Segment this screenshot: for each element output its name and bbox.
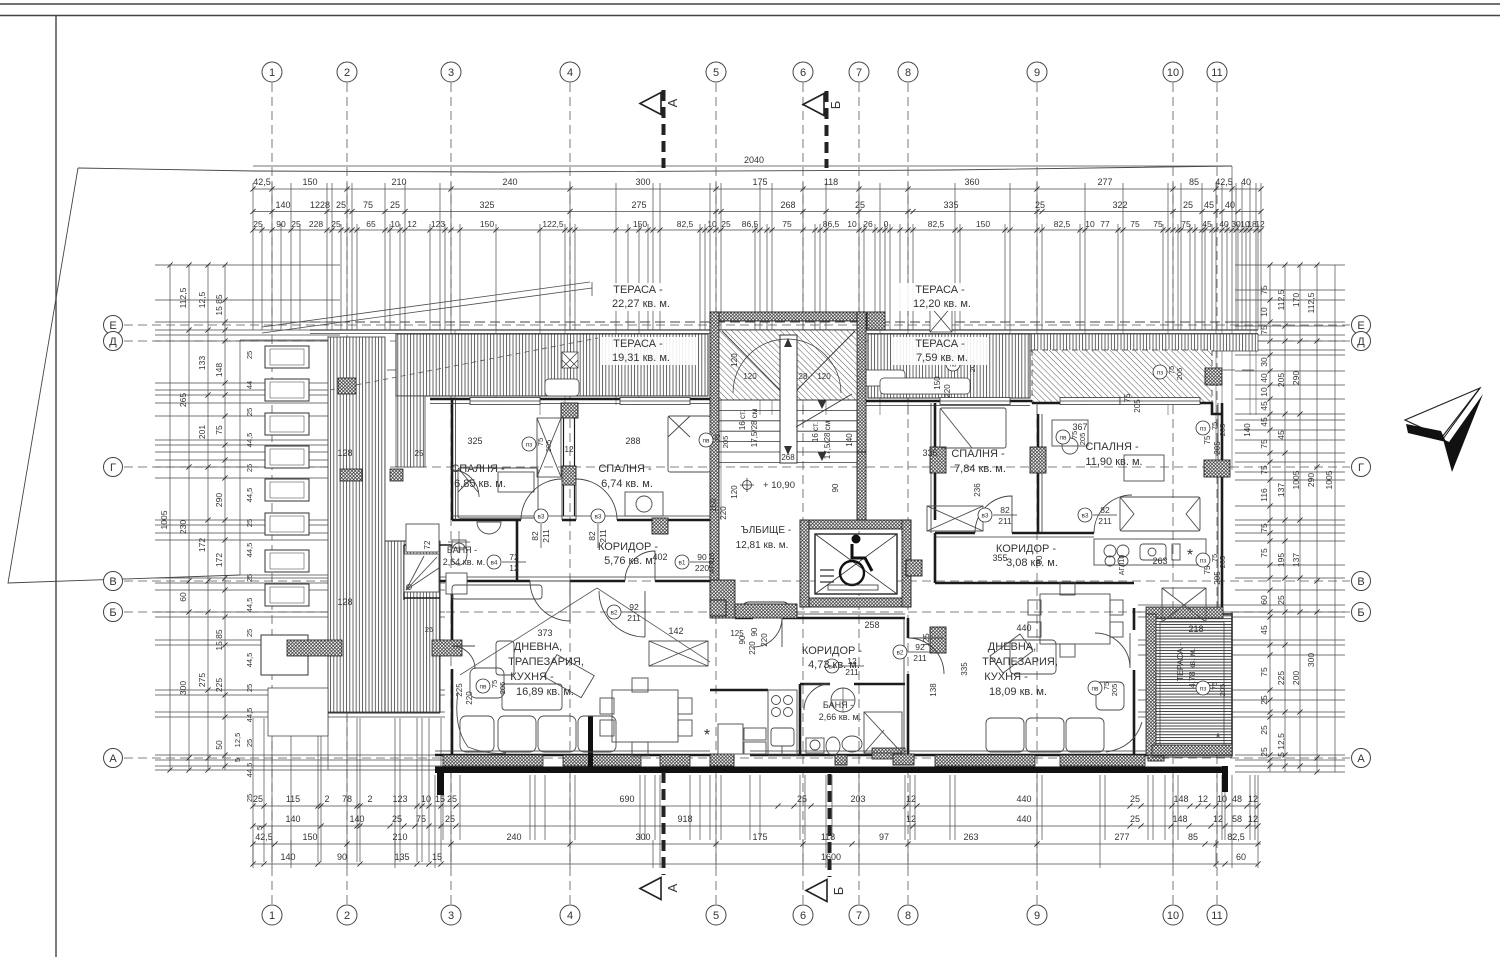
svg-text:75: 75 [1181,219,1191,229]
ramp diagonal lines [262,282,592,333]
svg-text:пз: пз [1157,370,1164,377]
svg-text:25: 25 [1183,200,1193,210]
section mark A bottom [640,772,664,900]
svg-text:225: 225 [455,683,464,697]
svg-text:150: 150 [480,219,494,229]
svg-text:2,64 кв. м.: 2,64 кв. м. [443,557,485,567]
svg-text:5 12,5: 5 12,5 [1276,733,1286,757]
svg-text:60: 60 [1259,595,1269,605]
svg-text:75: 75 [1130,219,1140,229]
svg-text:12: 12 [509,563,519,573]
svg-text:Д: Д [1357,336,1365,348]
svg-text:148: 148 [1172,814,1187,824]
svg-text:175: 175 [752,177,767,187]
svg-text:75: 75 [1259,465,1269,475]
svg-text:1: 1 [269,910,275,922]
svg-text:75: 75 [363,200,373,210]
svg-text:300: 300 [1306,653,1316,667]
svg-text:в2: в2 [896,650,903,657]
svg-text:12: 12 [906,794,916,804]
svg-text:4,78 кв. м.: 4,78 кв. м. [1187,648,1197,688]
svg-text:12: 12 [906,814,916,824]
svg-text:75: 75 [1259,439,1269,449]
svg-text:75: 75 [1203,435,1212,444]
svg-text:4: 4 [567,67,573,79]
svg-text:9: 9 [1034,910,1040,922]
svg-text:277: 277 [1097,177,1112,187]
svg-text:15: 15 [435,794,445,804]
svg-text:Б: Б [109,607,116,619]
svg-text:9: 9 [1034,67,1040,79]
svg-text:ТЕРАСА -: ТЕРАСА - [1175,643,1185,681]
small crosshatch blocks near left strip [340,469,362,481]
svg-text:12: 12 [1198,794,1208,804]
door swing arcs [452,470,1132,710]
svg-text:БАНЯ -: БАНЯ - [447,545,477,555]
svg-text:195: 195 [1276,553,1286,567]
room labels [602,283,698,311]
svg-text:82,5: 82,5 [1054,219,1071,229]
stair flight diagonal + arrows [722,331,855,427]
svg-text:пз: пз [526,442,533,449]
svg-text:112,5: 112,5 [1306,292,1316,313]
svg-text:10: 10 [707,219,717,229]
svg-text:25: 25 [331,219,341,229]
svg-text:25: 25 [245,464,254,472]
svg-text:290: 290 [214,493,224,507]
columns [561,312,1230,766]
svg-text:918: 918 [677,814,692,824]
svg-text:75: 75 [214,425,224,435]
svg-text:16 ст.: 16 ст. [811,422,820,442]
svg-text:28: 28 [799,372,808,381]
svg-text:172: 172 [214,553,224,567]
svg-text:225: 225 [214,678,224,692]
svg-text:82,5: 82,5 [928,219,945,229]
svg-text:ТРАПЕЗАРИЯ,: ТРАПЕЗАРИЯ, [508,656,584,668]
svg-text:42,5: 42,5 [1215,177,1233,187]
svg-text:БАНЯ -: БАНЯ - [823,700,853,710]
svg-text:пз: пз [1200,426,1207,433]
svg-text:135: 135 [394,852,409,862]
svg-text:ТЕРАСА -: ТЕРАСА - [915,338,965,350]
svg-text:360: 360 [964,177,979,187]
svg-text:*: * [1215,730,1220,745]
svg-text:19,31 кв. м.: 19,31 кв. м. [612,352,670,364]
svg-text:50: 50 [214,740,224,750]
svg-text:25: 25 [291,219,301,229]
svg-text:25: 25 [390,200,400,210]
svg-text:205: 205 [1213,441,1222,455]
stair center rail [780,335,797,463]
svg-text:218: 218 [1188,624,1203,634]
svg-text:275: 275 [197,673,207,687]
svg-text:60: 60 [1236,852,1246,862]
svg-text:150: 150 [709,498,718,512]
terrain boundary [78,166,1232,172]
furniture [404,408,1206,756]
svg-text:78: 78 [342,794,352,804]
svg-text:КУХНЯ -: КУХНЯ - [510,671,554,683]
svg-text:пв: пв [703,438,711,445]
svg-text:15: 15 [432,852,442,862]
svg-text:12,81 кв. м.: 12,81 кв. м. [736,540,789,551]
svg-text:ТЕРАСА -: ТЕРАСА - [915,284,965,296]
svg-text:12,5: 12,5 [233,733,242,748]
north arrow [1405,388,1483,472]
svg-text:в3: в3 [1081,513,1088,520]
svg-text:12: 12 [1255,219,1265,229]
svg-text:90: 90 [750,627,759,636]
svg-text:25: 25 [1035,200,1045,210]
svg-text:А: А [665,883,680,892]
svg-text:335: 335 [943,200,958,210]
svg-text:ТЕРАСА -: ТЕРАСА - [613,284,663,296]
svg-text:17,5/28 см: 17,5/28 см [750,409,759,447]
svg-text:пв: пв [480,684,488,691]
svg-text:2: 2 [367,794,372,804]
svg-text:ДНЕВНА,: ДНЕВНА, [988,641,1036,653]
door tag circles [540,524,542,548]
svg-text:75: 75 [1259,548,1269,558]
svg-text:325: 325 [467,436,482,446]
step outline right of terrace [1152,612,1232,757]
svg-text:45: 45 [1204,200,1214,210]
small deco rails top terraces [545,306,970,396]
svg-text:325: 325 [479,200,494,210]
svg-text:82,5: 82,5 [677,219,694,229]
svg-text:142: 142 [668,626,683,636]
svg-text:300: 300 [178,681,188,695]
svg-text:120: 120 [730,353,739,367]
svg-text:15,85: 15,85 [214,629,224,651]
svg-text:72: 72 [423,540,432,549]
svg-text:3: 3 [448,910,454,922]
svg-text:150: 150 [302,832,317,842]
svg-text:263: 263 [963,832,978,842]
svg-text:12: 12 [407,219,417,229]
svg-text:СПАЛНЯ -: СПАЛНЯ - [1085,441,1139,453]
svg-text:Б: Б [831,887,846,896]
svg-text:203: 203 [850,794,865,804]
svg-text:*: * [704,727,710,744]
svg-text:44,5: 44,5 [245,598,254,613]
svg-text:112,5: 112,5 [1276,289,1286,310]
svg-text:10: 10 [1167,67,1179,79]
svg-text:ТЕРАСА -: ТЕРАСА - [613,338,663,350]
svg-text:133: 133 [197,356,207,370]
svg-text:45: 45 [1202,219,1212,229]
svg-text:0: 0 [884,219,889,229]
svg-text:30: 30 [1259,357,1269,367]
svg-text:290: 290 [1306,473,1316,487]
svg-text:2: 2 [324,794,329,804]
svg-text:пв: пв [1092,686,1100,693]
svg-text:258: 258 [864,620,879,630]
svg-text:75: 75 [782,219,792,229]
svg-text:72: 72 [509,552,519,562]
svg-text:42,5: 42,5 [255,832,273,842]
thin hatch strip continuing right [1030,334,1258,351]
svg-text:25: 25 [336,200,346,210]
svg-text:140: 140 [845,433,854,447]
svg-text:пз: пз [1200,686,1207,693]
svg-text:А: А [1357,753,1365,765]
svg-text:25: 25 [1130,814,1140,824]
level mark [743,481,752,490]
svg-text:ТРАПЕЗАРИЯ,: ТРАПЕЗАРИЯ, [982,656,1058,668]
svg-text:277: 277 [1114,832,1129,842]
svg-text:СПАЛНЯ -: СПАЛНЯ - [451,463,505,475]
left terrace strip vertical hatch [328,337,385,712]
svg-text:25: 25 [1259,725,1269,735]
svg-text:335: 335 [960,662,969,676]
svg-text:4,73 кв. м.: 4,73 кв. м. [808,659,860,671]
svg-text:44,5: 44,5 [245,488,254,503]
svg-text:22,27 кв. м.: 22,27 кв. м. [612,298,670,310]
svg-text:265: 265 [178,393,188,407]
svg-text:205: 205 [544,440,553,453]
svg-text:16,89 кв. м.: 16,89 кв. м. [516,686,574,698]
svg-text:220: 220 [695,563,709,573]
svg-text:148: 148 [1173,794,1188,804]
svg-text:2040: 2040 [744,155,764,165]
svg-text:42,5: 42,5 [253,177,271,187]
svg-text:115: 115 [286,794,300,804]
top terrace right hatch [868,334,1030,398]
svg-text:18,09 кв. м.: 18,09 кв. м. [989,686,1047,698]
svg-text:205: 205 [721,436,730,449]
svg-text:92: 92 [915,642,925,652]
svg-text:КОРИДОР -: КОРИДОР - [996,543,1056,555]
AP.9 tag [742,602,790,616]
svg-text:8: 8 [905,910,911,922]
svg-text:172: 172 [197,538,207,552]
svg-text:5,76 кв. м.: 5,76 кв. м. [604,555,656,567]
svg-text:Б: Б [828,101,843,110]
svg-text:86,5: 86,5 [823,219,840,229]
windows in top wall [470,398,1200,405]
svg-text:25: 25 [245,739,254,747]
svg-text:7,59 кв. м.: 7,59 кв. м. [916,352,968,364]
svg-text:КОРИДОР -: КОРИДОР - [802,645,862,657]
svg-text:137: 137 [1291,553,1301,567]
right lower terrace hatch [1152,614,1232,755]
svg-text:5: 5 [255,826,264,830]
svg-text:10: 10 [847,219,857,229]
svg-text:205: 205 [498,682,507,695]
svg-text:205: 205 [1133,399,1142,413]
svg-text:СПАЛНЯ -: СПАЛНЯ - [951,448,1005,460]
svg-text:25: 25 [797,794,807,804]
svg-text:10: 10 [1085,219,1095,229]
svg-text:в4: в4 [490,560,497,567]
svg-text:82: 82 [1100,505,1110,515]
svg-text:367: 367 [1072,422,1087,432]
svg-text:211: 211 [913,653,927,663]
svg-text:140: 140 [275,200,290,210]
svg-text:12: 12 [565,445,574,454]
svg-text:205: 205 [1218,684,1227,697]
svg-text:7,84 кв. м.: 7,84 кв. м. [954,463,1006,475]
svg-text:288: 288 [625,436,640,446]
svg-text:6: 6 [800,67,806,79]
svg-text:118: 118 [824,177,838,187]
bottom parapet crosshatch segments [287,378,1145,766]
svg-text:220: 220 [719,506,728,520]
svg-text:228: 228 [309,219,323,229]
section mark B bottom [806,774,830,902]
svg-text:85: 85 [1188,832,1198,842]
svg-text:205: 205 [1218,424,1227,437]
section mark B top [803,91,827,168]
svg-text:10: 10 [421,794,431,804]
svg-text:120: 120 [817,372,831,381]
svg-text:25: 25 [253,219,263,229]
heavy section ground line [435,767,1228,774]
svg-text:Е: Е [109,320,116,332]
svg-text:в2: в2 [610,610,617,617]
svg-text:1005: 1005 [1324,470,1334,489]
svg-text:10: 10 [1259,387,1269,397]
elevator shaft [800,520,911,607]
svg-text:10: 10 [1217,794,1227,804]
svg-text:44,5: 44,5 [245,653,254,668]
svg-text:12: 12 [1248,814,1258,824]
svg-text:211: 211 [1098,516,1112,526]
svg-text:92: 92 [629,602,639,612]
svg-text:205: 205 [1175,368,1184,381]
svg-text:220: 220 [943,384,952,398]
svg-text:2: 2 [344,67,350,79]
svg-text:90: 90 [276,219,286,229]
terrace band dashed outer line [310,322,1258,370]
svg-text:48: 48 [1232,794,1242,804]
svg-text:175: 175 [752,832,767,842]
svg-text:90: 90 [738,635,747,644]
svg-text:128: 128 [337,597,352,607]
svg-text:25: 25 [392,814,402,824]
svg-text:25: 25 [253,794,263,804]
svg-text:10: 10 [390,219,400,229]
svg-text:75: 75 [416,814,426,824]
svg-text:25: 25 [855,200,865,210]
svg-text:6,85 кв. м.: 6,85 кв. м. [454,478,506,490]
svg-text:275: 275 [631,200,646,210]
svg-text:10: 10 [1167,910,1179,922]
svg-text:7: 7 [856,910,862,922]
stair treads [719,400,857,462]
svg-text:230: 230 [178,520,188,534]
svg-text:290: 290 [1291,371,1301,385]
svg-text:75: 75 [1123,393,1132,402]
svg-text:90: 90 [697,552,707,562]
svg-text:120: 120 [743,372,757,381]
thin inner wall lines [430,399,1218,755]
left lower white patio outline [240,340,328,575]
svg-text:201: 201 [197,425,207,439]
svg-text:205: 205 [1213,571,1222,585]
svg-text:122,5: 122,5 [542,219,564,229]
svg-text:75: 75 [1153,219,1163,229]
svg-text:А: А [109,753,117,765]
svg-text:2,66 кв. м.: 2,66 кв. м. [819,712,861,722]
svg-text:*: * [1187,547,1193,564]
svg-text:300: 300 [635,832,650,842]
svg-text:16 ст.: 16 ст. [738,410,747,430]
svg-text:90: 90 [831,483,840,492]
svg-text:82: 82 [530,531,540,541]
svg-text:6,74 кв. м.: 6,74 кв. м. [601,478,653,490]
svg-text:пз: пз [1200,558,1207,565]
svg-text:Д: Д [109,336,117,348]
svg-text:220: 220 [760,633,769,647]
svg-text:45: 45 [1276,430,1286,440]
svg-text:пв: пв [1060,435,1068,442]
svg-text:86,5: 86,5 [742,219,759,229]
svg-text:140: 140 [285,814,300,824]
svg-text:123: 123 [431,219,445,229]
svg-text:1: 1 [269,67,275,79]
svg-text:25: 25 [245,684,254,692]
svg-text:137: 137 [1276,483,1286,497]
svg-text:150: 150 [302,177,317,187]
svg-text:200: 200 [1291,671,1301,685]
svg-text:85: 85 [1189,177,1199,187]
svg-text:225: 225 [1276,671,1286,685]
svg-text:КОРИДОР -: КОРИДОР - [598,541,658,553]
svg-text:75: 75 [1259,285,1269,295]
svg-text:373: 373 [537,628,552,638]
svg-text:25: 25 [445,814,455,824]
svg-text:82: 82 [1000,505,1010,515]
svg-text:211: 211 [998,516,1012,526]
svg-text:150: 150 [633,219,647,229]
svg-text:Г: Г [1358,462,1364,474]
svg-text:690: 690 [619,794,634,804]
svg-text:440: 440 [1016,814,1031,824]
svg-text:25: 25 [1130,794,1140,804]
svg-text:140: 140 [349,814,364,824]
svg-text:11: 11 [1211,910,1222,922]
svg-text:5: 5 [233,758,242,762]
svg-text:112,5: 112,5 [178,287,188,308]
svg-text:в3: в3 [594,514,601,521]
svg-text:44,5: 44,5 [245,708,254,723]
svg-text:82,5: 82,5 [1227,832,1245,842]
svg-text:12,5: 12,5 [197,291,207,308]
svg-text:ЪЛБИЩЕ -: ЪЛБИЩЕ - [741,525,791,536]
svg-text:45: 45 [1259,401,1269,411]
svg-text:140: 140 [280,852,295,862]
svg-text:82: 82 [587,531,597,541]
svg-text:12,20 кв. м.: 12,20 кв. м. [913,298,971,310]
svg-text:10: 10 [1259,307,1269,317]
svg-text:СПАЛНЯ -: СПАЛНЯ - [598,463,652,475]
svg-text:75: 75 [1259,523,1269,533]
svg-text:268: 268 [781,453,795,462]
svg-text:65: 65 [366,219,376,229]
svg-text:17,5/28 см: 17,5/28 см [823,421,832,459]
svg-text:в3: в3 [537,514,544,521]
svg-text:300: 300 [635,177,650,187]
svg-text:40: 40 [1225,200,1235,210]
svg-text:25: 25 [1276,595,1286,605]
svg-text:44: 44 [245,381,254,389]
svg-text:25: 25 [245,519,254,527]
svg-text:263: 263 [1152,556,1167,566]
svg-text:26: 26 [425,625,433,634]
